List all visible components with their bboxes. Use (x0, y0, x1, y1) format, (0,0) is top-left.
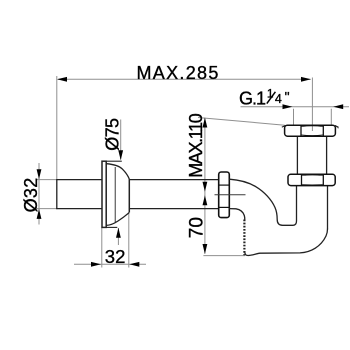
svg-text:Ø32: Ø32 (21, 177, 41, 212)
svg-text:MAX.285: MAX.285 (137, 63, 220, 83)
svg-text:G.1: G.1 (239, 89, 266, 109)
svg-text:70: 70 (186, 217, 207, 238)
svg-text:4: 4 (275, 92, 282, 106)
svg-text:": " (285, 89, 290, 105)
svg-text:MAX.110: MAX.110 (186, 113, 206, 178)
svg-text:32: 32 (105, 246, 126, 267)
svg-text:Ø75: Ø75 (103, 118, 123, 151)
